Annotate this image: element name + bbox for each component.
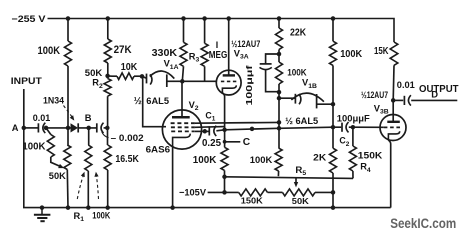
- node 100K divider label: [287, 68, 307, 78]
- wire V3B plate lead up: [392, 100, 394, 121]
- wire V1A plate connection: [142, 76, 146, 78]
- svg-text:100K: 100K: [340, 49, 362, 60]
- node junction 22K/100K: [277, 52, 282, 57]
- node junction ground rail R1: [86, 205, 91, 210]
- svg-text:½ 6AL5: ½ 6AL5: [285, 116, 318, 126]
- svg-text:INPUT: INPUT: [11, 75, 42, 86]
- wire 100K label leader (dashed): [94, 171, 99, 199]
- node junction rail-108: [106, 16, 111, 21]
- svg-text:I: I: [216, 40, 218, 50]
- wire R2 top lead: [107, 76, 109, 79]
- svg-text:C: C: [243, 137, 251, 148]
- resistor 10K (horizontal): [117, 73, 134, 80]
- node 50K pot label: [49, 171, 66, 182]
- node R2 label line2: [92, 78, 103, 90]
- node 0.25 label: [202, 138, 222, 149]
- wire 22K top lead: [278, 19, 280, 29]
- tube V1B cathode curve: [299, 94, 301, 104]
- diode 1N34 (triangle+bar): [71, 123, 79, 132]
- capacitor 100uuF bypass jogs: [266, 54, 279, 92]
- node half-12AU7 label 2: [361, 90, 388, 100]
- tube V1A envelope arc: [150, 71, 175, 79]
- wire 1MEG top lead: [204, 19, 206, 44]
- svg-text:MEG: MEG: [209, 50, 228, 61]
- wire R3 top lead: [183, 19, 185, 43]
- svg-text:16.5K: 16.5K: [115, 154, 139, 165]
- node 6AS6 label: [146, 144, 171, 154]
- svg-text:A: A: [12, 123, 19, 133]
- svg-text:2K: 2K: [313, 153, 326, 163]
- wire R5 wiper drop: [294, 178, 298, 188]
- node C2 label: [339, 136, 349, 148]
- svg-text:330K: 330K: [152, 48, 178, 59]
- wire V2 row3 to C1: [195, 130, 209, 132]
- wire 22K bottom lead: [278, 50, 280, 63]
- wire -255V top rail: [48, 19, 395, 43]
- wire 27K bottom lead: [107, 63, 109, 76]
- wire R1 label leader (dashed): [77, 171, 86, 199]
- node C2 value label: [337, 113, 371, 123]
- wire 27K top lead: [107, 19, 109, 40]
- svg-text:0.25: 0.25: [202, 138, 222, 149]
- wire V2 screen line to divider: [195, 121, 279, 124]
- wire V1A to V3A grid: [182, 80, 217, 82]
- resistor 50K potentiometer (left): [64, 145, 71, 170]
- wire lead to 16.5K: [107, 128, 109, 145]
- node 15K label: [374, 46, 389, 57]
- wire tie to -105V rail: [224, 177, 226, 193]
- node 100uuf label (rotated): [244, 65, 254, 105]
- svg-text:0.01: 0.01: [397, 80, 415, 90]
- tube V2 grid row2: [171, 126, 195, 128]
- tube V3A cathode: [222, 85, 236, 92]
- resistor 1 MEG: [201, 43, 208, 66]
- node R1 label: [74, 211, 85, 223]
- wire 100K divider bottom lead: [278, 84, 280, 98]
- tube V3B plate: [387, 121, 400, 123]
- wire 50K to ground column: [315, 191, 333, 193]
- node junction rail-V3A: [226, 16, 231, 21]
- node 16.5K label: [115, 154, 139, 165]
- node 1MEG label line2: [209, 50, 228, 61]
- node 1N34 label: [43, 95, 65, 105]
- resistor 100K divider: [276, 62, 283, 84]
- node junction ground rail x107: [105, 205, 110, 210]
- node junction ground symbol: [40, 205, 45, 210]
- node junction tie-line left: [222, 175, 227, 180]
- node junction signal x333: [331, 125, 336, 130]
- wire signal line C1 to C2: [225, 127, 342, 130]
- svg-text:100K: 100K: [38, 45, 61, 57]
- wire V2 cathode to ground: [172, 147, 174, 208]
- node 50K R5 label: [292, 196, 310, 206]
- svg-text:OUTPUT: OUTPUT: [419, 84, 459, 95]
- resistor 15K: [390, 42, 398, 65]
- wire 2K bottom to ground: [332, 173, 334, 208]
- wire 100K-shunt top lead: [46, 128, 51, 135]
- node -255V label: [12, 14, 47, 24]
- node 100K-C label: [193, 155, 217, 166]
- node junction C1/V3A-cathode: [222, 128, 227, 133]
- node junction row3 exit: [203, 129, 208, 134]
- wire 100K-right top lead: [332, 19, 334, 42]
- node 330K label: [152, 48, 178, 59]
- wire V1A output lead: [167, 80, 183, 82]
- svg-text:100K: 100K: [22, 142, 45, 153]
- resistor 50K R5 (horizontal pot): [283, 189, 316, 196]
- wire 100K-C top lead: [224, 142, 226, 148]
- node 27K label: [114, 44, 132, 56]
- svg-text:100μμf: 100μμf: [244, 65, 254, 105]
- wire 100K R-a top lead: [67, 19, 69, 42]
- wire divider to V1B: [279, 97, 295, 99]
- node half-12AU7 label: [231, 39, 260, 49]
- node junction 100K-shunt: [44, 126, 49, 130]
- wire V3A plate lead to rail: [228, 19, 230, 76]
- node junction signal mystery: [250, 127, 255, 132]
- node 100K-shunt label: [22, 142, 45, 153]
- node junction ground rail x68: [66, 205, 71, 210]
- ground symbol: [34, 208, 51, 222]
- node junction -105V x224: [222, 190, 227, 195]
- svg-text:100μμF: 100μμF: [337, 113, 371, 123]
- svg-text:100K: 100K: [250, 155, 273, 166]
- resistor 16.5K: [104, 145, 111, 170]
- tube V3A grid dashes: [221, 80, 237, 82]
- wire R3 bottom lead: [182, 66, 183, 81]
- tube V3B envelope: [380, 115, 406, 141]
- wire 1MEG bottom lead: [204, 66, 206, 81]
- wire 100K-right bottom lead: [332, 65, 334, 104]
- svg-text:6AS6: 6AS6: [146, 144, 171, 154]
- wire R2 bottom lead to B-line junction: [107, 96, 109, 128]
- wire C2 to R4 junction: [349, 126, 353, 128]
- node junction ground x333: [331, 205, 336, 210]
- wire junction to 10K: [108, 75, 117, 77]
- tube V1B plate bar: [294, 94, 296, 104]
- node junction V1B tap: [277, 96, 282, 101]
- node junction 10K/V1A/V2-grid: [140, 74, 145, 79]
- resistor 100K (from -255V, left): [65, 41, 72, 66]
- tube V1A right plate bar: [166, 74, 168, 87]
- svg-text:22K: 22K: [290, 28, 306, 39]
- wire 1N34 leader (dashed): [64, 106, 77, 122]
- resistor 2K: [330, 148, 337, 173]
- resistor 100K (from rail, right): [330, 41, 337, 65]
- capacitor C2 100uuF: [342, 122, 349, 132]
- node 1MEG label line1: [216, 40, 218, 50]
- wire 100K-shunt to wiper arrow: [51, 157, 61, 167]
- node R3 label: [189, 51, 200, 63]
- resistor 330K R3: [180, 42, 187, 66]
- resistor 27K: [104, 39, 111, 63]
- tube V1A cathode curve: [150, 74, 152, 84]
- wire 16.5K bottom lead: [107, 170, 109, 208]
- svg-text:– 0.002: – 0.002: [111, 133, 144, 143]
- node 0.01 output label: [397, 80, 415, 90]
- svg-text:½: ½: [134, 96, 142, 107]
- tube V2 envelope: [162, 110, 201, 149]
- node half-6AL5 label A: [134, 96, 142, 107]
- wire R4 junction to V3B grid: [353, 126, 384, 128]
- svg-text:100K: 100K: [92, 211, 110, 221]
- node junction 100uuF bottom: [277, 90, 282, 95]
- wire 50K pot bottom lead: [66, 170, 69, 208]
- svg-text:−105V: −105V: [179, 187, 207, 198]
- node junction plate/15K/output: [391, 98, 396, 103]
- svg-text:15K: 15K: [374, 46, 389, 57]
- node V3A label: [234, 48, 249, 60]
- wire 15K bottom lead: [392, 65, 395, 100]
- node 50K R2 label line1: [85, 68, 103, 78]
- node 0.002 label: [111, 133, 144, 143]
- tube V3B cathode: [388, 131, 399, 140]
- wire V3A cathode lead down: [222, 93, 224, 130]
- node junction V1A/R3/V2-plate: [180, 79, 185, 84]
- node junction 0.002/R2/16.5K: [105, 126, 110, 130]
- node junction -105V x333: [331, 190, 336, 195]
- wire R4 top lead: [352, 127, 354, 146]
- node junction C2/R4: [351, 125, 356, 130]
- wire V3B cathode to ground: [388, 140, 390, 207]
- node OUTPUT label: [419, 84, 459, 95]
- node 10K label: [121, 62, 138, 73]
- capacitor 0.01 output: [404, 95, 411, 105]
- node 100K V1B-load label: [250, 155, 273, 166]
- tube V2 plate: [172, 116, 190, 119]
- tube V3B grid dashes: [384, 126, 402, 128]
- svg-text:6AL5: 6AL5: [146, 96, 169, 106]
- wire 10K to V1A junction: [134, 75, 142, 77]
- resistor 100K (V3A cathode load): [221, 147, 228, 170]
- wire diode to B: [78, 127, 97, 129]
- svg-text:50K: 50K: [49, 171, 66, 182]
- wire bias tie-line: [225, 177, 354, 179]
- wire between 150K and 50K: [268, 191, 283, 193]
- wire A to 0.01 cap: [24, 127, 39, 129]
- svg-text:10K: 10K: [121, 62, 138, 73]
- node R4 label: [360, 162, 371, 174]
- svg-text:50K: 50K: [85, 68, 103, 78]
- svg-text:100K: 100K: [287, 68, 307, 78]
- node R4 value label: [358, 151, 383, 161]
- wire 100K V1B-load bottom: [277, 171, 279, 176]
- svg-text:150K: 150K: [358, 151, 383, 161]
- node junction 27K/10K/R2: [105, 74, 110, 79]
- svg-text:150K: 150K: [241, 196, 264, 206]
- tube V2 grid row1: [171, 122, 195, 124]
- node A label: [12, 123, 19, 133]
- wire output line: [411, 99, 457, 101]
- node 22K label: [290, 28, 306, 39]
- node C label: [243, 137, 251, 148]
- svg-text:100K: 100K: [193, 155, 217, 166]
- tube V3A envelope: [216, 70, 241, 95]
- wire V2 plate lead: [181, 81, 183, 117]
- node junction rail-68: [66, 16, 71, 21]
- node junction V1B/100K: [331, 102, 336, 107]
- wire 2K top lead: [332, 127, 334, 148]
- svg-text:−255 V: −255 V: [12, 14, 47, 24]
- tube V1B envelope arc: [291, 93, 324, 102]
- node 2K label: [313, 153, 326, 163]
- tube V2 cathode: [173, 134, 191, 147]
- wire V1B output lead: [317, 103, 333, 105]
- tube V1A plate bar: [146, 74, 148, 84]
- node V3B label: [374, 103, 389, 115]
- wire R1 top lead: [88, 128, 90, 145]
- node junction C tap: [223, 140, 227, 144]
- capacitor C1 0.25: [209, 126, 216, 136]
- wire divider to screen junction: [278, 98, 280, 128]
- node D label: [431, 89, 438, 100]
- wire lead into 50K pot: [67, 128, 69, 145]
- resistor 22K: [276, 28, 283, 50]
- svg-text:D: D: [431, 89, 438, 100]
- node wiper arrowhead: [58, 164, 65, 170]
- wire node C tap: [225, 130, 241, 142]
- svg-text:1N34: 1N34: [43, 95, 65, 105]
- tube V1B right plate bar: [316, 94, 318, 108]
- wire C1 to junction: [216, 130, 224, 131]
- node junction rail-R3: [181, 16, 186, 21]
- capacitor 0.01 input: [38, 123, 45, 133]
- wire -105V lead: [208, 191, 239, 193]
- wire input vertical: [23, 89, 25, 128]
- node junction rail-22K: [277, 16, 282, 21]
- node INPUT label: [11, 75, 42, 86]
- wire R4 bottom lead: [352, 171, 354, 178]
- node 150K label: [241, 196, 264, 206]
- resistor 100K (V1B load): [275, 148, 282, 171]
- wire V2 row2 right stub: [195, 126, 224, 129]
- svg-text:50K: 50K: [292, 196, 310, 206]
- capacitor 0.002: [97, 123, 104, 133]
- node junction screen/divider: [277, 120, 282, 125]
- wire V2 input grid line: [143, 76, 166, 126]
- node junction ground rail V2 cathode: [170, 205, 175, 210]
- node junction rail-100K-right: [331, 16, 336, 21]
- tube V2 grid row3: [171, 130, 195, 132]
- tube V3A plate: [223, 74, 235, 76]
- wire R1 bottom lead: [87, 171, 89, 208]
- node V1A label: [164, 59, 179, 71]
- wire cap to junction-46: [46, 127, 71, 129]
- node B junction: [86, 126, 91, 130]
- wire ground rail: [24, 128, 391, 208]
- node junction A-line x68: [66, 126, 71, 130]
- node A junction: [22, 126, 27, 130]
- svg-text:0.01: 0.01: [33, 113, 51, 123]
- resistor R1 100K potentiometer: [85, 145, 92, 171]
- node 100K-left label: [38, 45, 61, 57]
- wire 0.002 leader curl: [102, 132, 109, 138]
- node R1 value label: [92, 211, 110, 221]
- node V1B label: [302, 78, 317, 90]
- resistor 150K R4: [349, 146, 356, 171]
- node B label: [85, 113, 92, 123]
- node SeekIC watermark: [390, 216, 456, 231]
- wire V1B junction down to signal: [332, 104, 334, 127]
- node 0.01 label: [33, 113, 51, 123]
- capacitor 100uuF plates: [260, 64, 272, 70]
- wire 100K-C bottom lead: [224, 170, 226, 176]
- resistor 150K (horizontal): [239, 189, 268, 196]
- wire 100K-left bottom lead to node A line: [67, 66, 69, 128]
- node R5 label: [295, 165, 306, 177]
- node 100K-right label: [340, 49, 362, 60]
- wire divider to 100K lower: [278, 128, 280, 148]
- node junction rail-1MEG: [202, 16, 207, 21]
- node half-6AL5 label B: [146, 96, 169, 106]
- resistor 50K R2: [104, 78, 111, 96]
- node V2 label: [189, 100, 199, 112]
- svg-text:B: B: [85, 113, 92, 123]
- wire 0.002 to junction: [104, 127, 108, 129]
- node junction divider/signal: [277, 126, 282, 131]
- svg-text:SeekIC.com: SeekIC.com: [390, 216, 456, 231]
- svg-text:½12AU7: ½12AU7: [361, 90, 388, 100]
- node half-6AL5 label 2: [285, 116, 318, 126]
- resistor 100K shunt (below A): [47, 135, 54, 158]
- node C1 label: [205, 110, 215, 122]
- wire plate junction to cap: [393, 99, 403, 101]
- svg-text:27K: 27K: [114, 44, 132, 56]
- node -105V label: [179, 187, 207, 198]
